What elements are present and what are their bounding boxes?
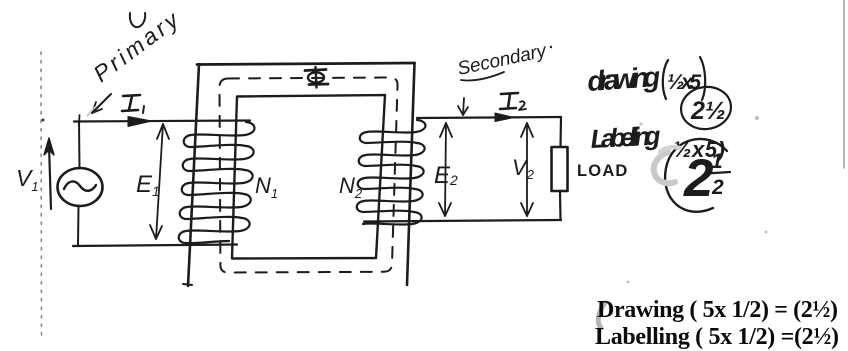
wire bottom rail (secondary) (364, 220, 561, 222)
squiggle above Primary (130, 13, 145, 27)
svg-text:LOAD: LOAD (577, 162, 629, 180)
svg-text:drawing: drawing (586, 61, 661, 97)
svg-text:E2: E2 (434, 162, 458, 189)
svg-text:Drawing ( 5x 1/2) = (2½): Drawing ( 5x 1/2) = (2½) (597, 297, 838, 323)
label I2 (500, 93, 526, 110)
wire bottom rail (primary) (73, 245, 237, 247)
svg-text:N1: N1 (255, 173, 278, 201)
svg-text:V2: V2 (512, 155, 535, 182)
arrowhead I1 (128, 117, 152, 127)
ac source sine (64, 181, 96, 190)
primary winding N1 (179, 122, 255, 243)
core inner rectangle (232, 95, 385, 259)
core outer bottom feet (183, 284, 192, 285)
arrowhead I2 (495, 113, 514, 122)
svg-text:V1: V1 (16, 165, 39, 194)
wire top rail (secondary) (417, 117, 561, 118)
label I1 (122, 95, 144, 113)
svg-text:2½: 2½ (690, 97, 726, 125)
big circled 2.5 (665, 139, 727, 212)
svg-text:Primary: Primary (88, 6, 184, 87)
junction tick top-left (78, 115, 81, 126)
arrow V2 (double headed) (521, 123, 533, 216)
arrow V1 (up) (44, 138, 54, 209)
core outer top edge (197, 63, 415, 65)
svg-text:Secondary: Secondary (456, 40, 550, 80)
small down arrow (458, 98, 468, 115)
wire source-bottom to bottom rail (77, 206, 80, 246)
gray speckles (755, 116, 759, 120)
core outer left edge (188, 64, 199, 286)
page margin dotted line (left) (40, 52, 43, 338)
svg-text:E1: E1 (136, 171, 160, 199)
gray pencil mark near Drawing (598, 303, 605, 328)
svg-text:2: 2 (711, 176, 724, 199)
leader arrow from Primary to wire (87, 94, 111, 116)
underline Secondary (461, 72, 504, 80)
small dot near margin (42, 119, 45, 122)
svg-text:1: 1 (711, 150, 723, 173)
secondary winding N2 (357, 120, 426, 225)
gray smudge near marks (654, 152, 675, 183)
arrow E1 (double headed) (150, 124, 169, 239)
wire source-top to top rail (78, 121, 81, 169)
flux symbol phi (305, 67, 328, 88)
scan edge line (top right) (843, 0, 845, 168)
core outer right edge (407, 63, 415, 285)
svg-text:Labelling ( 5x 1/2) =(2½): Labelling ( 5x 1/2) =(2½) (595, 324, 839, 350)
flux dashed loop (220, 78, 398, 273)
circled 2.5 (marks) (678, 84, 733, 133)
svg-text:2: 2 (683, 149, 713, 208)
svg-text:½x5: ½x5 (667, 71, 701, 94)
svg-text:N2: N2 (339, 173, 363, 201)
ac source circle (58, 168, 103, 206)
wire top rail (primary) (74, 121, 250, 122)
arrow E2 (double headed) (439, 123, 452, 216)
wire right vertical (load branch) (559, 117, 562, 147)
load resistor box (552, 147, 568, 191)
handwriting: (1/2 x 5) tall parens (663, 60, 668, 99)
svg-text:Labelling: Labelling (590, 120, 662, 154)
